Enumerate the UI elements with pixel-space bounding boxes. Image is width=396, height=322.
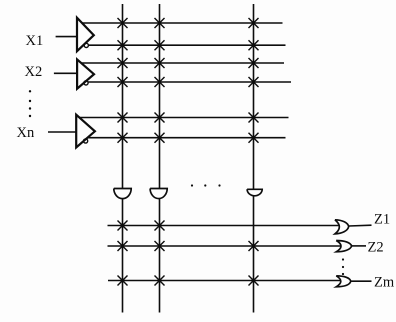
- svg-text:Xn: Xn: [17, 125, 35, 141]
- wire: sum row Zm: [108, 280, 341, 282]
- junction row2 x P1: [118, 40, 128, 50]
- ellipsis between O2 and O3: [342, 258, 344, 275]
- junction row6 x P1: [118, 133, 128, 143]
- junction marks: X-with-dot crosspoints: [118, 18, 259, 286]
- wire: product column P1 (lower): [122, 199, 124, 313]
- bubble on U2 complement output: [84, 81, 88, 85]
- junction rowZ2 x P2: [155, 241, 165, 251]
- buffer U2 (X2 true/complement driver): [77, 59, 94, 88]
- wire: X1 input: [56, 36, 77, 38]
- wire: sum row Z2: [108, 245, 342, 247]
- junction row5 x P3: [249, 113, 259, 123]
- wire: product column P3 (lower): [253, 196, 255, 313]
- junction row1 x P3: [249, 18, 259, 28]
- svg-text:X2: X2: [25, 64, 43, 80]
- junction row2 x P2: [155, 40, 165, 50]
- wire: row X2 complement: [88, 81, 291, 83]
- junction rowZm x P3: [249, 276, 259, 286]
- junction rowZ1 x P1: [118, 221, 128, 231]
- junction row6 x P3: [249, 133, 259, 143]
- junction row4 x P1: [118, 77, 128, 87]
- junction rowZ2 x P3: [249, 241, 259, 251]
- junction row1 x P2: [155, 18, 165, 28]
- junction row2 x P3: [249, 40, 259, 50]
- junction rowZm x P1: [118, 276, 128, 286]
- wire: row X1 complement: [88, 44, 285, 46]
- OR gate O2: [336, 241, 351, 252]
- junction rowZm x P2: [155, 276, 165, 286]
- wire: product column P3 (upper): [253, 4, 255, 189]
- junction row1 x P1: [118, 18, 128, 28]
- AND gate G1: [114, 189, 131, 199]
- bubble on U1 complement output: [84, 43, 88, 47]
- wire: Z2 output: [352, 245, 366, 247]
- wire: Z1 output: [349, 224, 372, 227]
- wire: row X1 true: [82, 22, 283, 24]
- svg-text:X1: X1: [26, 33, 44, 49]
- junction row3 x P1: [118, 58, 128, 68]
- junction row6 x P2: [155, 133, 165, 143]
- bubble on U3 complement output: [84, 139, 88, 143]
- wire: Xn input: [48, 131, 76, 133]
- OR gate O3: [336, 276, 351, 287]
- wire: row Xn complement: [88, 137, 286, 139]
- junction rowZ1 x P2: [155, 221, 165, 231]
- AND gate G2: [150, 189, 167, 199]
- wire: product column P2 (lower): [159, 199, 161, 313]
- wire: row Xn true: [79, 117, 288, 119]
- junction rowZ2 x P1: [118, 241, 128, 251]
- junction row5 x P1: [118, 113, 128, 123]
- svg-text:Z1: Z1: [374, 212, 390, 228]
- svg-text:Z2: Z2: [368, 240, 384, 256]
- ellipsis between X2 and Xn: [29, 90, 31, 117]
- svg-text:Zm: Zm: [374, 275, 395, 291]
- wire: sum row Z1: [108, 225, 341, 227]
- junction row5 x P2: [155, 113, 165, 123]
- junction row4 x P2: [155, 77, 165, 87]
- wire: product column P1 (upper): [122, 4, 124, 189]
- junction row3 x P2: [155, 58, 165, 68]
- AND gate G3: [247, 189, 262, 196]
- ellipsis between G2 and G3: [191, 184, 221, 186]
- wire: product column P2 (upper): [159, 4, 161, 189]
- buffer U3 (Xn true/complement driver): [76, 115, 95, 148]
- buffer U1 (X1 true/complement driver): [77, 18, 94, 52]
- junction row4 x P3: [249, 77, 259, 87]
- junction row3 x P3: [249, 58, 259, 68]
- OR gate O1: [335, 220, 349, 234]
- wire: X2 input: [54, 72, 77, 74]
- wire: row X2 true: [81, 62, 284, 64]
- wire: Zm output: [351, 280, 372, 282]
